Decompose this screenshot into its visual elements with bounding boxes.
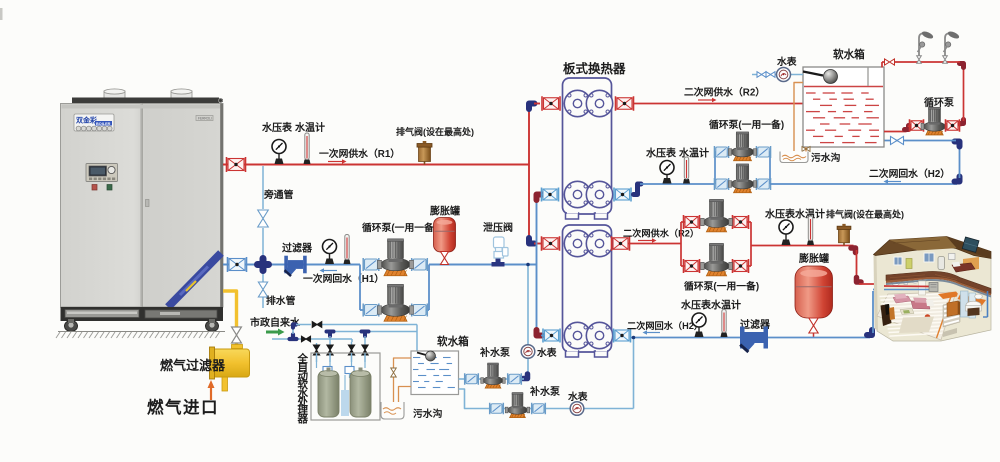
gutter bottom <box>381 402 404 419</box>
svg-text:泄压阀: 泄压阀 <box>483 221 513 234</box>
R2b pump 2 <box>701 243 733 276</box>
U2 top-right valve <box>612 236 630 251</box>
H1 pump headers <box>360 265 429 311</box>
makeup pump 2 outlet valve <box>532 403 546 415</box>
thermometer <box>304 133 311 164</box>
exchanger U2 ports <box>564 230 612 348</box>
shower pump inlet valve <box>910 119 924 132</box>
scan edge mark <box>0 8 3 20</box>
svg-text:BOILER: BOILER <box>96 122 111 126</box>
U1 top-left valve <box>542 96 560 111</box>
svg-text:二次网供水（R2）: 二次网供水（R2） <box>623 228 699 239</box>
svg-text:水压表: 水压表 <box>764 208 796 221</box>
drain valve small <box>391 368 397 377</box>
H1 gauge <box>323 240 337 265</box>
svg-text:器: 器 <box>297 413 309 425</box>
H1 pump 1 <box>378 239 414 276</box>
soft water tank <box>803 67 884 147</box>
H2a pump 2 valves <box>714 178 770 190</box>
gas valve <box>232 327 242 343</box>
H1 flow arrow <box>320 268 338 273</box>
strainer H1 <box>284 256 307 277</box>
gas inlet arrow <box>208 380 215 400</box>
U1 top-right valve <box>616 96 634 111</box>
svg-text:循环泵(一用一备): 循环泵(一用一备) <box>362 221 437 234</box>
H2b flow arrow <box>643 330 661 335</box>
R2b pump headers <box>681 222 751 266</box>
red header to exchangers <box>529 104 541 244</box>
H2a tank valve <box>891 136 904 144</box>
H2b return pipe <box>631 290 884 338</box>
H1 return pipe <box>223 264 536 266</box>
municipal water arrow <box>266 329 285 336</box>
pressure gauge <box>272 140 286 165</box>
svg-text:旁通管: 旁通管 <box>263 188 294 201</box>
svg-text:二次网回水（H2）: 二次网回水（H2） <box>869 167 950 180</box>
H2b thermometer <box>721 310 728 338</box>
municipal branch valve <box>302 336 311 342</box>
U1 bottom-left valve <box>542 188 559 202</box>
blue header from exchangers <box>537 195 547 336</box>
shower loop valve <box>885 59 895 65</box>
softener feed manifold <box>313 332 417 363</box>
R2a supply pipe <box>633 103 803 105</box>
R2b pump 1 valves <box>684 215 749 229</box>
H2a pump 1 <box>728 132 756 161</box>
house illustration <box>874 237 992 342</box>
svg-text:补水泵: 补水泵 <box>479 346 511 359</box>
U2 bottom-right valve <box>614 329 631 343</box>
svg-text:FERROLI: FERROLI <box>198 117 212 121</box>
svg-text:补水泵: 补水泵 <box>529 385 561 398</box>
H1 pump 2 <box>378 284 414 321</box>
svg-text:水表: 水表 <box>777 55 797 68</box>
R2b thermometer <box>807 216 814 245</box>
fill branch valve <box>312 322 322 328</box>
expansion tank 2 valve <box>809 318 818 337</box>
municipal water pipe <box>272 339 352 342</box>
boiler outlet valve <box>227 157 246 172</box>
R1 flow arrow <box>328 159 347 164</box>
expansion tank 1 <box>434 218 456 253</box>
H2a gauge <box>660 161 674 184</box>
bottom tank float <box>417 351 436 361</box>
svg-text:水温计: 水温计 <box>678 147 709 160</box>
svg-text:水压表: 水压表 <box>261 121 293 134</box>
ground hatching <box>56 332 225 339</box>
svg-text:循环泵(一用一备): 循环泵(一用一备) <box>709 118 784 131</box>
makeup pump 1 inlet valve <box>465 373 479 385</box>
svg-text:一次网供水（R1）: 一次网供水（R1） <box>319 147 400 160</box>
svg-text:一次网回水（H1）: 一次网回水（H1） <box>303 272 384 285</box>
makeup pump 2 <box>505 393 529 418</box>
R2a flow arrow <box>698 98 717 103</box>
drain pipe <box>262 271 264 308</box>
H2a pipe to tank <box>770 141 960 185</box>
shower fixture 1 <box>917 30 934 63</box>
svg-text:膨胀罐: 膨胀罐 <box>430 205 460 218</box>
bypass pipe <box>262 166 264 258</box>
U2 top-left valve <box>542 236 560 251</box>
svg-text:膨胀罐: 膨胀罐 <box>799 252 829 265</box>
H1 pump 2 valves <box>363 304 427 317</box>
H1 thermometer <box>344 235 351 265</box>
drain valve <box>258 282 267 297</box>
makeup water meter 2 <box>570 402 584 416</box>
exchanger U1 ports <box>564 90 612 207</box>
svg-text:软水箱: 软水箱 <box>833 48 865 61</box>
svg-text:水压表: 水压表 <box>680 299 712 312</box>
makeup riser to H1 <box>523 263 530 379</box>
U2 bottom-left valve <box>543 329 560 343</box>
bottom tank drains <box>394 358 412 404</box>
boiler return valve <box>228 257 247 272</box>
H2a pump 1 valves <box>714 146 770 158</box>
svg-text:板式换热器: 板式换热器 <box>563 61 626 76</box>
makeup pump 2 piping <box>459 336 636 409</box>
makeup pump 1 <box>481 363 505 388</box>
shower fixture 2 <box>943 30 960 63</box>
overflow valve <box>802 147 810 152</box>
R2b pump 2 valves <box>684 259 749 273</box>
expansion tank 1 valve <box>440 252 448 265</box>
R1 supply pipe <box>223 164 529 166</box>
svg-text:水压表: 水压表 <box>645 147 677 160</box>
tank fill water meter <box>777 68 791 82</box>
svg-text:循环泵(一用一备): 循环泵(一用一备) <box>684 280 759 293</box>
relief valve <box>492 237 509 267</box>
R2b flow arrow <box>638 238 657 243</box>
tank overflow pipes <box>794 83 806 155</box>
expansion tank 2 <box>795 266 833 318</box>
bypass valve <box>258 210 269 227</box>
municipal tee <box>290 335 297 340</box>
tank fill valves <box>757 72 775 78</box>
R2b pump 1 <box>701 199 733 232</box>
svg-text:排水管: 排水管 <box>266 294 296 307</box>
makeup pump 1 outlet valve <box>508 373 522 385</box>
gas filter <box>210 347 250 391</box>
air vent <box>417 141 432 165</box>
gutter top <box>780 152 808 163</box>
svg-text:二次网供水（R2）: 二次网供水（R2） <box>684 86 765 99</box>
svg-text:污水沟: 污水沟 <box>811 151 841 164</box>
H2a return pipe <box>631 184 716 195</box>
svg-text:排气阀(设在最高处): 排气阀(设在最高处) <box>396 126 474 137</box>
svg-text:燃气进口: 燃气进口 <box>147 397 219 417</box>
svg-text:排气阀(设在最高处): 排气阀(设在最高处) <box>826 209 904 220</box>
makeup pump 1 piping <box>459 378 525 380</box>
cross fitting <box>258 259 269 271</box>
svg-text:软水箱: 软水箱 <box>437 335 469 348</box>
shower pump outlet valve <box>946 119 960 132</box>
softener unit box <box>311 353 380 420</box>
heat exchanger U1 body <box>563 78 612 219</box>
R2b gauge <box>779 220 793 245</box>
svg-text:过滤器: 过滤器 <box>282 242 313 255</box>
H2b gauge <box>692 313 706 337</box>
H2b strainer <box>739 327 768 354</box>
H1 pump 1 valves <box>363 258 427 271</box>
svg-text:水表: 水表 <box>537 346 557 359</box>
heat exchanger U2 body <box>563 225 612 357</box>
shower circulation pump <box>921 107 948 135</box>
U1 bottom-right valve <box>614 188 631 202</box>
boiler cabinet <box>61 89 224 332</box>
svg-text:双金彩: 双金彩 <box>76 116 98 125</box>
tank fill pipe <box>752 74 803 76</box>
R2b air vent <box>837 224 851 246</box>
shower circulation piping <box>882 62 964 132</box>
R2b pipe to house <box>751 246 884 285</box>
svg-text:水温计: 水温计 <box>294 121 325 134</box>
makeup water meter <box>521 345 535 359</box>
gas pipe from boiler <box>223 291 243 349</box>
H2a pump headers <box>715 152 770 184</box>
makeup pump 2 inlet valve <box>490 403 504 415</box>
bottom soft water tank <box>411 351 459 395</box>
H2a pump 2 <box>728 164 756 193</box>
R2b supply pipe <box>628 243 681 245</box>
softener label <box>297 352 309 425</box>
H2a thermometer <box>683 157 690 184</box>
fill branch pipe <box>293 325 417 352</box>
float valve <box>803 70 838 84</box>
svg-text:燃气过滤器: 燃气过滤器 <box>160 358 226 373</box>
H2a flow arrow <box>884 179 902 184</box>
svg-text:污水沟: 污水沟 <box>413 407 443 420</box>
